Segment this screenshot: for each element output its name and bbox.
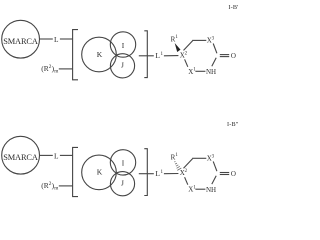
ring bond X1 to NH (structure 2) [195,188,205,190]
svg-text:NH: NH [206,68,216,76]
I text (structure 2) [122,159,125,168]
atom X1 label (structure 2) [188,185,196,193]
substituent (R2)m label (structure 2) [41,181,59,192]
ring bond top CH2 to X3 (structure 2) [192,157,206,159]
linker L1 (structure 2) [155,169,163,178]
carbonyl double bond C=O (structure 1) [220,54,229,56]
svg-text:L: L [54,152,59,161]
ring bond X3 to carbonyl C (structure 1) [213,44,217,54]
ring J circle (structure 1) [110,54,134,78]
K text (structure 2) [97,168,103,177]
atom X1 label (structure 1) [188,67,196,75]
NH label (structure 1) [206,68,216,76]
svg-text:J: J [121,179,124,188]
bond L1 to X2 (structure 2) [164,173,179,175]
ring bond top CH2 to X3 (structure 1) [192,39,206,41]
K text (structure 1) [97,50,103,59]
wedge bond R1 to X2 (structure 1) [175,43,181,52]
ring bond C to NH (structure 1) [212,58,216,66]
linker L (structure 2) [54,152,59,161]
substituent (R2)m label (structure 1) [41,64,59,75]
svg-text:J: J [121,61,124,70]
SMARCA circle (structure 2) [2,136,40,174]
NH label (structure 2) [206,186,216,194]
ring I circle (structure 1) [110,32,135,57]
atom X3 label (structure 1) [207,36,215,44]
bond rings to L1 (structure 2) [139,173,154,175]
svg-text:K: K [97,168,103,177]
I text (structure 1) [122,41,125,50]
bond L to bracket (structure 1) [60,38,73,40]
ring bond X2 to top CH2 (structure 2) [184,159,193,169]
linker L1 (structure 1) [155,51,163,60]
svg-text:(R: (R [41,64,48,73]
carbonyl double bond C=O (structure 2) [220,172,229,174]
svg-text:(R: (R [41,181,48,190]
ring K circle (structure 1) [82,37,117,72]
atom X2 label (structure 2) [180,169,188,177]
ring bond X3 to carbonyl C (structure 2) [213,161,217,171]
bond SMARCA to L (structure 1) [40,38,53,40]
J text (structure 2) [121,179,124,188]
bond L to bracket (structure 2) [60,154,73,156]
R1 label (structure 2) [171,153,179,161]
bond rings to L1 (structure 1) [139,55,154,57]
J text (structure 1) [121,61,124,70]
left bracket (structure 1) [73,30,78,80]
right bracket (structure 1) [144,31,147,78]
formula label I-B' [228,4,238,11]
left bracket (structure 2) [73,147,78,196]
svg-text:I-B'': I-B'' [227,121,238,128]
hashed wedge bond R1 to X2 (structure 2) [174,161,181,170]
bond (R2)m to bracket (structure 1) [59,68,73,70]
ring I circle (structure 2) [110,150,135,175]
svg-text:I-B': I-B' [228,4,238,11]
svg-text:SMARCA: SMARCA [3,153,38,162]
SMARCA text (structure 2) [3,153,38,162]
carbonyl O label (structure 1) [231,52,236,60]
right bracket (structure 2) [144,149,147,196]
svg-text:K: K [97,50,103,59]
ring K circle (structure 2) [82,155,117,190]
atom X2 label (structure 1) [180,51,188,59]
formula label I-B'' [227,121,238,128]
ring bond X1 to X2 (structure 2) [185,177,188,185]
SMARCA text (structure 1) [3,37,38,46]
atom X3 label (structure 2) [207,154,215,162]
ring bond X2 to top CH2 (structure 1) [184,41,193,51]
svg-text:O: O [231,52,236,60]
bond (R2)m to bracket (structure 2) [59,185,73,187]
linker L (structure 1) [54,35,59,44]
ring bond X1 to X2 (structure 1) [185,59,188,67]
bond L1 to X2 (structure 1) [164,55,179,57]
bond SMARCA to L (structure 2) [40,154,53,156]
ring bond C to NH (structure 2) [212,176,216,184]
carbonyl O label (structure 2) [231,170,236,178]
SMARCA circle (structure 1) [2,20,40,58]
svg-text:SMARCA: SMARCA [3,37,38,46]
ring J circle (structure 2) [110,172,134,196]
svg-text:NH: NH [206,186,216,194]
R1 label (structure 1) [171,35,179,43]
svg-text:O: O [231,170,236,178]
svg-text:L: L [54,35,59,44]
ring bond X1 to NH (structure 1) [195,70,205,72]
